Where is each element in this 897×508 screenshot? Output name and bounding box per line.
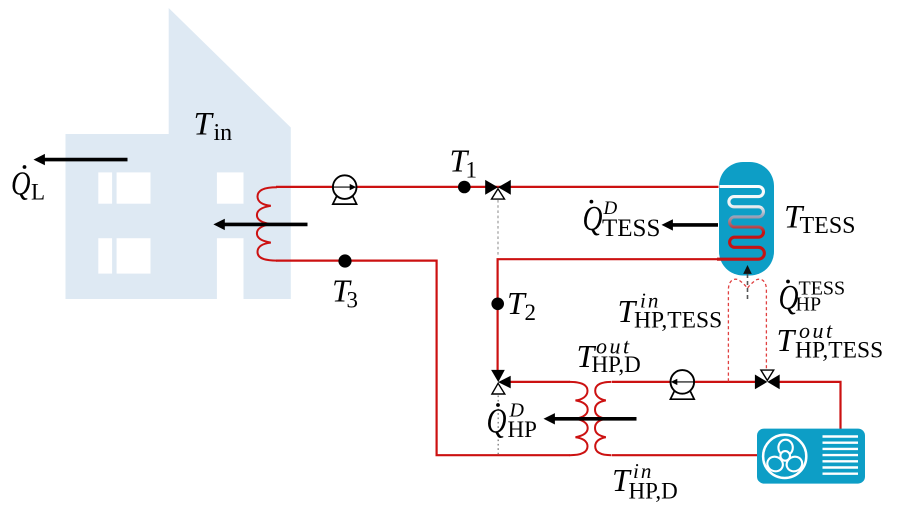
gray dotted valve3 control line <box>497 396 499 456</box>
pump P1 <box>333 175 357 204</box>
svg-text:HP: HP <box>508 417 537 442</box>
svg-text:HP: HP <box>796 294 822 316</box>
svg-text:3: 3 <box>347 288 359 313</box>
wire top supply pipe <box>276 186 719 188</box>
label THP-D-out <box>577 334 641 377</box>
window W1 upper-left narrow <box>98 172 112 203</box>
node T1 dot <box>458 181 471 194</box>
label TTESS <box>784 199 856 238</box>
arrow QTESS discharge <box>662 219 719 230</box>
window W4 lower-left narrow <box>98 238 112 273</box>
arrow QL <box>34 154 128 165</box>
svg-text:Q: Q <box>583 199 603 238</box>
wire valve2 to HP <box>779 382 841 429</box>
house body <box>66 8 291 299</box>
svg-text:in: in <box>214 120 233 146</box>
wire HX2 to valve2 <box>612 381 756 383</box>
pump P2 <box>670 370 694 399</box>
TESS serpentine coil <box>717 187 764 260</box>
svg-text:L: L <box>31 179 45 204</box>
node T3 dot <box>338 254 351 267</box>
label T3 <box>332 273 358 313</box>
label QHP-TESS <box>779 278 846 317</box>
valve V2 <box>755 370 780 389</box>
heat exchanger coil house <box>257 187 277 260</box>
svg-text:2: 2 <box>525 300 537 325</box>
label Tin <box>194 107 233 147</box>
gray dashed valve1 control line <box>497 200 499 257</box>
svg-text:HP,TESS: HP,TESS <box>634 308 722 334</box>
HP grille <box>823 437 859 474</box>
valve V3 three-way <box>491 370 511 394</box>
svg-text:HP,D: HP,D <box>629 479 678 504</box>
label QTESS-D <box>583 198 661 242</box>
window W3 upper-right <box>217 172 244 203</box>
wire TESS return pipe <box>498 259 719 371</box>
window W5 lower-left wide <box>117 238 151 273</box>
svg-text:HP,TESS: HP,TESS <box>795 337 883 363</box>
HP fan <box>763 435 806 478</box>
label THP-TESS-in <box>618 288 723 333</box>
TESS tank <box>719 162 774 276</box>
window W2 upper-left wide <box>117 172 151 203</box>
arrow into house <box>213 219 307 230</box>
heat pump unit HP <box>757 429 865 484</box>
label QL <box>11 165 45 204</box>
svg-text:T: T <box>777 322 797 358</box>
door <box>217 238 244 299</box>
heat exchanger coil HX2 right <box>595 382 612 455</box>
svg-text:Q: Q <box>487 402 507 441</box>
label THP-TESS-out <box>777 318 884 363</box>
valve V1 <box>485 180 511 199</box>
dashed charge arrow into tank <box>743 265 752 299</box>
svg-text:HP,D: HP,D <box>592 352 641 377</box>
dashed red QHP-TESS bracket <box>728 279 766 381</box>
node T2 dot <box>491 298 504 311</box>
label T2 <box>507 285 536 325</box>
label THP-D-in <box>612 459 678 504</box>
svg-text:T: T <box>194 107 215 143</box>
HP chassis <box>757 429 865 484</box>
arrow QHP discharge <box>544 413 637 424</box>
label QHP-D <box>487 400 537 443</box>
svg-text:Q: Q <box>11 165 31 202</box>
wire HX2 to HP bottom <box>612 454 758 456</box>
svg-text:1: 1 <box>466 158 478 183</box>
svg-text:TESS: TESS <box>800 213 856 239</box>
svg-text:TESS: TESS <box>602 215 660 242</box>
label T1 <box>450 142 478 182</box>
heat exchanger coil HX2 left <box>570 382 588 455</box>
wire valve3 to HX2 <box>508 381 570 383</box>
wire house return pipe <box>276 261 570 456</box>
